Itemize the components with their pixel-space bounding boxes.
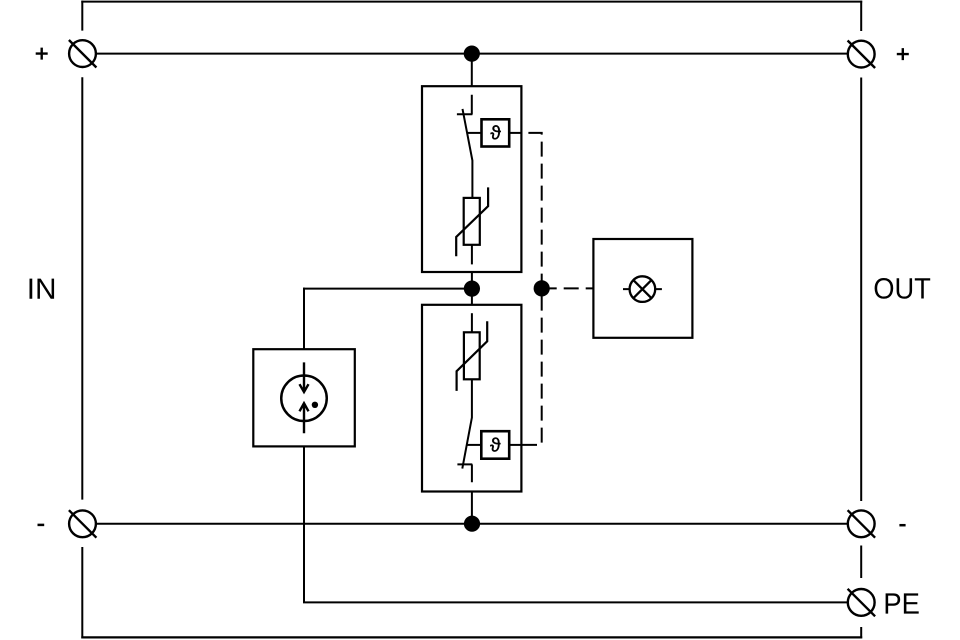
G1 upper electrode arrow: [300, 362, 309, 392]
varistor RV1 body: [464, 198, 480, 245]
wire - line: [96, 523, 848, 525]
label + (IN): [36, 48, 48, 60]
varistor RV1 lower lead: [471, 245, 473, 265]
label OUT: [875, 278, 931, 299]
F1 wire thermal element to box edge: [509, 132, 521, 134]
G1 circle: [281, 376, 327, 422]
F1 disconnect switch blade: [463, 109, 473, 198]
F1 thermal element box: [482, 119, 510, 146]
wire + node to upper protection module: [471, 54, 473, 86]
F2 disconnect switch blade: [462, 379, 472, 468]
enclosure border left (wire IN side): [81, 1, 83, 639]
wire + line: [96, 53, 848, 55]
wire PE line: [303, 601, 848, 603]
varistor RV1 diagonal stroke: [456, 187, 488, 256]
lamp H1 circle with cross: [630, 276, 656, 302]
dashed mechanical linkage from disconnects: [521, 133, 541, 445]
varistor RV2 diagonal stroke: [457, 321, 488, 391]
F2 disconnect fixed contact: [457, 464, 472, 482]
label + (OUT): [897, 48, 909, 60]
terminal + OUT: [848, 41, 876, 69]
wire mid node to left elbow: [303, 288, 472, 290]
node + junction: [464, 46, 480, 62]
varistor RV2 body: [464, 332, 480, 379]
lamp H1 leads: [623, 288, 662, 290]
enclosure border bottom: [81, 636, 862, 638]
F1 disconnect fixed contact: [457, 95, 473, 115]
label - (OUT): [899, 524, 905, 527]
F1 thermal element label theta: [490, 125, 500, 139]
varistor RV2 upper lead: [471, 313, 473, 332]
spark gap / gas discharge tube G1 box: [253, 349, 354, 446]
enclosure border right (wire OUT side): [860, 1, 862, 639]
wire spark-gap box to PE line: [303, 446, 305, 602]
F2 wire thermal element to box edge: [509, 444, 521, 446]
protection module F1 (upper varistor with thermal disconnect) box: [422, 86, 521, 272]
G1 gas-filled dot: [312, 402, 318, 408]
terminal PE: [848, 589, 876, 617]
protection module F2 (lower varistor with thermal disconnect) box: [422, 305, 521, 492]
terminal + IN: [69, 40, 97, 68]
label - (IN): [38, 524, 45, 527]
terminal - IN: [69, 510, 97, 538]
F2 thermal element label theta: [490, 438, 500, 452]
node mid junction: [464, 281, 480, 297]
F2 thermal element box: [481, 431, 509, 459]
label PE: [886, 593, 919, 613]
wire upper module to mid node: [471, 272, 473, 305]
indicator lamp H1 box: [593, 239, 692, 338]
label IN: [30, 279, 55, 299]
G1 lower electrode arrow: [300, 403, 309, 433]
enclosure border top: [81, 1, 862, 3]
F1 wire blade to thermal element: [467, 132, 481, 134]
F2 wire blade to thermal element: [467, 444, 481, 446]
terminal - OUT: [848, 510, 876, 538]
dashed linkage to indicator lamp: [542, 287, 594, 289]
wire elbow down to spark-gap box: [303, 288, 305, 350]
node linkage junction: [534, 280, 550, 296]
node - junction: [464, 516, 480, 532]
wire lower module to - line: [471, 492, 473, 524]
